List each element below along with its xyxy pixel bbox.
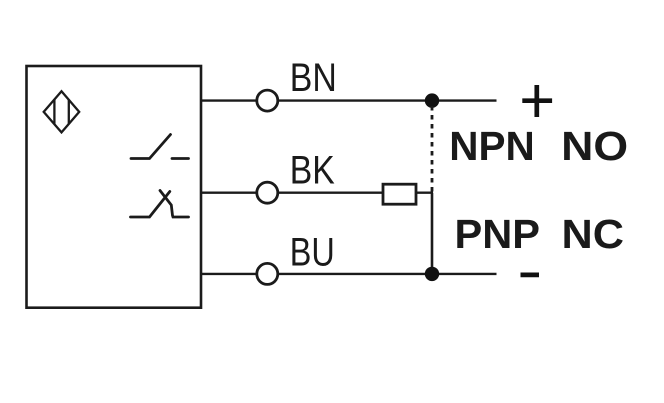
NC contact switch — [131, 191, 189, 218]
terminal circle BN — [257, 90, 278, 111]
svg-text:NPN: NPN — [449, 123, 535, 169]
label NO — [561, 123, 628, 169]
junction node BN/+ — [425, 93, 439, 107]
label PNP — [455, 211, 541, 257]
svg-text:PNP: PNP — [455, 211, 541, 257]
label NC — [562, 211, 625, 257]
svg-text:BK: BK — [290, 149, 335, 193]
terminal circle BK — [257, 182, 278, 203]
label BU — [290, 231, 335, 275]
label BN — [290, 56, 337, 100]
svg-text:NO: NO — [561, 123, 628, 169]
NO contact switch — [131, 135, 189, 159]
junction node BU/- — [425, 267, 439, 281]
wire BU (terminal to - rail) — [279, 273, 497, 275]
sensor body U1 — [27, 66, 202, 308]
wire BK (box to terminal) — [201, 191, 256, 193]
wire BK (resistor to vertical rail) — [416, 191, 433, 193]
+ terminal — [522, 85, 552, 117]
vertical wire (BK node to BU node) — [431, 193, 434, 274]
label NPN — [449, 123, 535, 169]
wire BN (terminal to + rail) — [279, 99, 497, 101]
resistor R1 — [383, 184, 416, 204]
svg-text:BU: BU — [290, 231, 335, 275]
dotted wire (junction to BK node) — [431, 106, 434, 192]
svg-text:NC: NC — [562, 211, 625, 257]
wire BK (terminal to resistor) — [279, 191, 383, 193]
wire BU (box to terminal) — [201, 273, 256, 275]
label BK — [290, 149, 335, 193]
proximity sensor symbol (diamond) — [44, 91, 79, 132]
- terminal — [521, 273, 540, 278]
wire BN (box to terminal) — [201, 99, 256, 101]
terminal circle BU — [257, 263, 278, 284]
svg-text:BN: BN — [290, 56, 337, 100]
